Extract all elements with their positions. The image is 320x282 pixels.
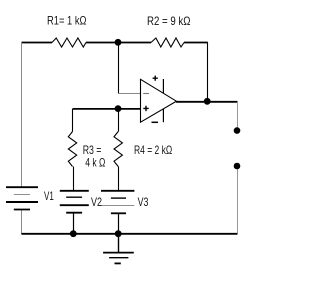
svg-text:V3: V3 <box>138 197 149 209</box>
svg-text:V1: V1 <box>44 191 54 203</box>
svg-text:V2: V2 <box>91 197 102 209</box>
svg-text:R2 = 9 kΩ: R2 = 9 kΩ <box>147 14 191 28</box>
svg-text:R3 =: R3 = <box>83 143 102 157</box>
svg-text:R4 = 2 kΩ: R4 = 2 kΩ <box>134 143 172 157</box>
svg-text:R1= 1 kΩ: R1= 1 kΩ <box>47 14 87 28</box>
svg-text:4 k Ω: 4 k Ω <box>85 156 105 170</box>
